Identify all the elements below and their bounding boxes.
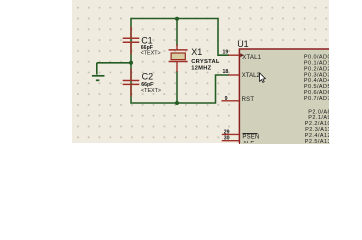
svg-text:C2: C2 [142,72,154,82]
svg-text:U1: U1 [237,39,249,49]
wire crystal bottom lead [176,71,178,103]
wire ground net [97,62,131,64]
svg-text:C1: C1 [141,36,153,46]
pin 29 stub PSEN [222,133,240,135]
svg-text:9: 9 [225,96,228,102]
svg-text:P0.7/AD7: P0.7/AD7 [304,96,329,102]
svg-text:18: 18 [223,69,229,75]
svg-text:X1: X1 [191,47,202,57]
pin 19 stub XTAL1 [229,54,240,56]
pin name PSEN [242,134,259,141]
capacitor C2 [123,69,140,97]
svg-text:XTAL2: XTAL2 [242,73,261,79]
ground [92,63,105,81]
svg-text:<TEXT>: <TEXT> [141,88,161,94]
node junction crystal bottom [175,101,179,105]
svg-text:RST: RST [242,97,255,103]
pin arrow XTAL1 [240,53,243,57]
wire top net XTAL1 [131,19,229,63]
wire crystal top lead [176,19,178,46]
svg-text:29: 29 [224,130,230,136]
svg-text:XTAL1: XTAL1 [242,55,261,61]
node junction C1-C2-ground [129,61,133,65]
IC U1 body bottom continuation [239,143,330,145]
svg-text:PSEN: PSEN [242,135,259,141]
node junction crystal top [175,17,179,21]
svg-text:30: 30 [224,136,230,142]
svg-text:CRYSTAL: CRYSTAL [191,59,220,65]
svg-text:66pF: 66pF [141,82,153,88]
IC U1 microcontroller body [239,49,349,155]
crystal X1 [169,45,188,72]
capacitor C1 [123,27,140,55]
svg-text:19: 19 [223,49,229,55]
pin 30 stub ALE [222,140,240,142]
pin 18 stub XTAL2 [229,74,240,76]
svg-text:<TEXT>: <TEXT> [141,51,161,57]
svg-text:12MHZ: 12MHZ [191,65,211,71]
pin 9 stub RST [222,100,240,102]
mouse cursor [260,73,266,82]
wire bottom net XTAL2 [131,63,229,103]
